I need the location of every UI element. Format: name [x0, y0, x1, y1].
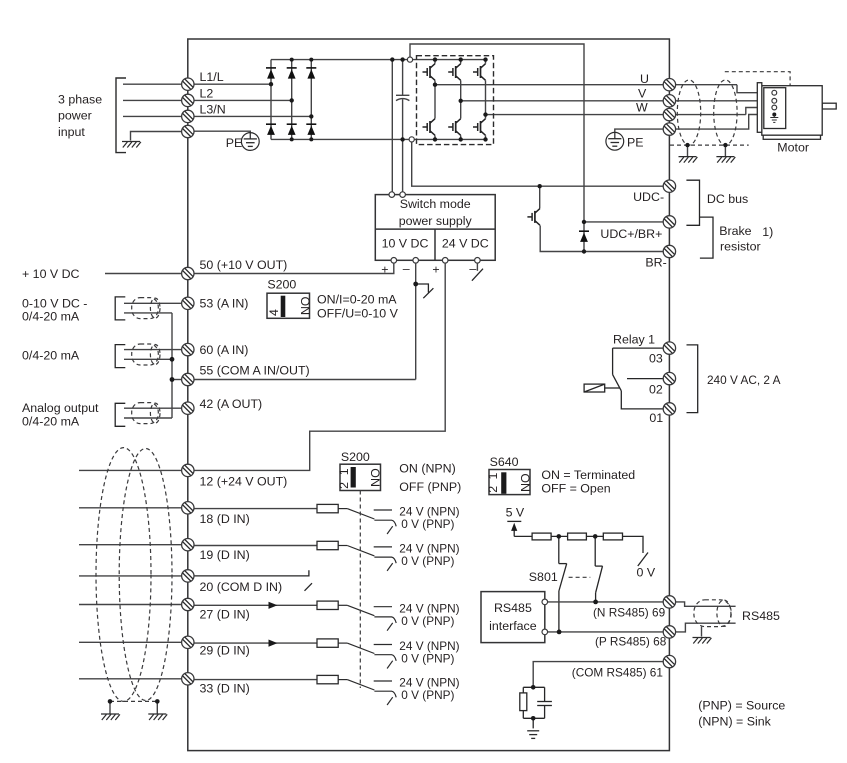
svg-text:U: U — [640, 72, 649, 86]
svg-text:resistor: resistor — [720, 239, 761, 253]
svg-text:0 V (PNP): 0 V (PNP) — [401, 554, 454, 568]
svg-text:OFF (PNP): OFF (PNP) — [399, 480, 461, 494]
svg-text:Analog output: Analog output — [22, 401, 99, 415]
svg-text:OFF = Open: OFF = Open — [541, 482, 610, 496]
svg-text:18 (D IN): 18 (D IN) — [200, 512, 250, 526]
svg-text:ON/I=0-20 mA: ON/I=0-20 mA — [317, 293, 397, 307]
svg-text:27 (D IN): 27 (D IN) — [200, 607, 250, 621]
svg-text:W: W — [636, 101, 648, 115]
svg-text:DC bus: DC bus — [707, 192, 748, 206]
svg-text:–: – — [403, 261, 410, 275]
svg-text:4: 4 — [267, 309, 281, 316]
svg-text:5 V: 5 V — [506, 506, 525, 520]
svg-text:12 (+24 V OUT): 12 (+24 V OUT) — [200, 475, 288, 489]
svg-text:(P RS485) 68: (P RS485) 68 — [595, 634, 667, 648]
svg-text:Relay 1: Relay 1 — [613, 333, 655, 347]
svg-text:RS485: RS485 — [494, 601, 532, 615]
svg-text:+: + — [381, 262, 388, 276]
svg-text:interface: interface — [489, 619, 537, 633]
svg-text:55 (COM A IN/OUT): 55 (COM A IN/OUT) — [200, 363, 310, 377]
svg-text:Switch mode: Switch mode — [400, 197, 471, 211]
svg-text:20 (COM D IN): 20 (COM D IN) — [200, 580, 283, 594]
svg-text:53 (A IN): 53 (A IN) — [200, 296, 249, 310]
svg-text:0 V (PNP): 0 V (PNP) — [401, 688, 454, 702]
svg-text:(NPN) = Sink: (NPN) = Sink — [698, 714, 771, 728]
svg-text:10 V DC: 10 V DC — [382, 237, 429, 251]
svg-text:S200: S200 — [267, 278, 296, 292]
svg-text:(N RS485) 69: (N RS485) 69 — [593, 606, 665, 620]
svg-text:1): 1) — [762, 225, 773, 239]
svg-text:2: 2 — [486, 486, 500, 493]
svg-text:0 V (PNP): 0 V (PNP) — [401, 517, 454, 531]
svg-text:0 V (PNP): 0 V (PNP) — [401, 652, 454, 666]
svg-text:ON: ON — [368, 468, 382, 487]
svg-text:42 (A OUT): 42 (A OUT) — [200, 397, 263, 411]
svg-text:input: input — [58, 125, 85, 139]
svg-text:ON: ON — [298, 297, 312, 316]
svg-text:0-10 V DC -: 0-10 V DC - — [22, 297, 87, 311]
svg-text:60 (A IN): 60 (A IN) — [200, 343, 249, 357]
svg-text:power supply: power supply — [399, 214, 473, 228]
svg-text:BR-: BR- — [645, 256, 666, 270]
svg-text:UDC-: UDC- — [633, 190, 664, 204]
svg-text:02: 02 — [649, 383, 663, 397]
svg-text:+ 10 V DC: + 10 V DC — [22, 267, 80, 281]
svg-text:50 (+10 V OUT): 50 (+10 V OUT) — [200, 258, 288, 272]
svg-text:Brake: Brake — [719, 224, 751, 238]
svg-text:V: V — [638, 87, 647, 101]
svg-text:Motor: Motor — [777, 141, 809, 155]
svg-text:–: – — [469, 261, 476, 275]
svg-text:0 V: 0 V — [637, 566, 656, 580]
svg-text:S200: S200 — [341, 450, 370, 464]
svg-text:33 (D IN): 33 (D IN) — [200, 682, 250, 696]
svg-text:19 (D IN): 19 (D IN) — [200, 548, 250, 562]
svg-text:L3/N: L3/N — [200, 103, 226, 117]
svg-text:UDC+/BR+: UDC+/BR+ — [600, 227, 662, 241]
svg-text:2: 2 — [337, 482, 351, 489]
svg-text:3 phase: 3 phase — [58, 93, 102, 107]
svg-text:PE: PE — [226, 136, 243, 150]
svg-text:ON = Terminated: ON = Terminated — [541, 468, 635, 482]
svg-text:0/4-20 mA: 0/4-20 mA — [22, 310, 80, 324]
svg-text:RS485: RS485 — [742, 609, 780, 623]
svg-text:(PNP) = Source: (PNP) = Source — [698, 698, 785, 712]
svg-text:03: 03 — [649, 351, 663, 365]
svg-text:PE: PE — [627, 136, 644, 150]
svg-text:L1/L: L1/L — [200, 70, 224, 84]
svg-text:OFF/U=0-10 V: OFF/U=0-10 V — [317, 307, 399, 321]
svg-text:(COM RS485) 61: (COM RS485) 61 — [572, 665, 663, 679]
svg-text:ON (NPN): ON (NPN) — [399, 462, 455, 476]
svg-text:+: + — [432, 262, 439, 276]
svg-text:24 V DC: 24 V DC — [442, 237, 489, 251]
svg-text:01: 01 — [649, 411, 663, 425]
svg-text:0 V (PNP): 0 V (PNP) — [401, 614, 454, 628]
svg-text:1: 1 — [486, 473, 500, 480]
svg-text:0/4-20 mA: 0/4-20 mA — [22, 415, 80, 429]
svg-text:S801: S801 — [529, 570, 558, 584]
svg-text:L2: L2 — [200, 87, 214, 101]
svg-text:29 (D IN): 29 (D IN) — [200, 643, 250, 657]
svg-text:S640: S640 — [490, 455, 519, 469]
svg-text:0/4-20 mA: 0/4-20 mA — [22, 349, 80, 363]
svg-text:240 V AC, 2 A: 240 V AC, 2 A — [707, 373, 781, 387]
svg-text:1: 1 — [337, 468, 351, 475]
svg-text:power: power — [58, 109, 92, 123]
svg-text:ON: ON — [518, 473, 532, 492]
